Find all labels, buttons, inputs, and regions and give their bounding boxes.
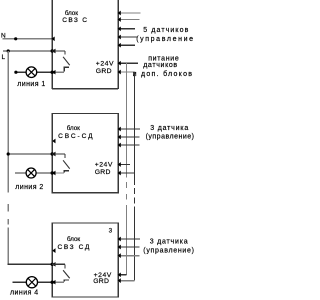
switch S1 in U1 (52, 51, 69, 72)
svg-text:3: 3 (109, 228, 113, 235)
terminal arrow U1 GRD (118, 70, 121, 75)
U3 sensor wire 2 (118, 246, 139, 248)
U2 +24V stub wire (118, 164, 130, 166)
svg-text:линия 2: линия 2 (15, 184, 44, 191)
U2 GRD stub wire (118, 172, 134, 174)
svg-text:и доп. блоков: и доп. блоков (133, 70, 194, 78)
terminal arrow N on U1 (51, 36, 54, 41)
junction dot L to left rail (7, 49, 10, 52)
junction dot lamp4 at U3 terminal (51, 281, 54, 284)
power drop wire A (+24V bus) solid upper (126, 63, 128, 177)
power drop wire B dash 2 (134, 198, 136, 204)
U1 +24V wire (118, 62, 138, 64)
U1 sensor wire 2 (118, 19, 139, 21)
terminal arrow U2 +24V (118, 162, 121, 167)
block U2 label (58, 125, 94, 140)
terminal arrows U3 right edge sensors (118, 237, 121, 258)
junction dot lamp line 1 start (14, 71, 17, 74)
wire lamp line 1 (16, 71, 52, 73)
power drop wire A solid lower (126, 205, 128, 275)
svg-text:(управление): (управление) (136, 36, 194, 43)
switch S3 in U3 (52, 264, 69, 282)
svg-text:СВС-СД: СВС-СД (58, 133, 94, 140)
terminal arrows U1 right edge sensors (118, 11, 121, 48)
lamp линия 2 (26, 168, 36, 178)
terminal arrow U2 GRD (118, 171, 121, 176)
junction dot L at U1 terminal (51, 49, 54, 52)
svg-text:GRD: GRD (95, 169, 111, 176)
wire N (3, 38, 52, 40)
U2 sensor wire 3 (118, 144, 139, 146)
junction dot lamp1 at U1 terminal (51, 71, 54, 74)
svg-text:линия 4: линия 4 (10, 290, 39, 297)
block U1 label (62, 10, 88, 24)
U1 sensor wire 5 (118, 44, 135, 46)
wire L (3, 50, 52, 52)
svg-text:(управление): (управление) (143, 248, 194, 255)
block U3 box (блок СВЗ СД) (52, 223, 118, 297)
terminal arrow lamp2 on U2 (52, 171, 55, 176)
svg-text:блок: блок (65, 10, 78, 17)
block U3 label (58, 236, 91, 251)
junction dot U2 feed terminal (51, 152, 54, 155)
wire U3 feed from left rail with corner (8, 263, 52, 266)
junction dot U3 feed terminal (51, 263, 54, 266)
terminal arrow lamp1 on U1 (52, 70, 55, 75)
lamp линия 4 (26, 277, 37, 288)
power drop wire B dash 1 (134, 188, 136, 194)
left rail wire dash 1 of omitted section (7, 204, 9, 212)
left rail wire (solid upper part) (7, 51, 9, 193)
wire U2 feed from left rail (8, 153, 52, 155)
terminal arrow U3 upper (unconnected) (52, 248, 55, 253)
terminal arrow U3 feed (52, 262, 55, 267)
left rail wire (solid lower part) (7, 228, 9, 265)
switch S2 in U2 (52, 154, 69, 173)
left rail wire dash 2 of omitted section (7, 219, 9, 225)
power drop wire B dash 3 (134, 207, 136, 213)
svg-text:+24V: +24V (96, 61, 114, 68)
svg-text:СВЗ С: СВЗ С (62, 17, 88, 24)
terminal arrow U2 feed (52, 152, 55, 157)
terminal arrow U2 upper (unconnected) (52, 139, 55, 144)
svg-text:датчиков: датчиков (143, 62, 178, 69)
svg-text:GRD: GRD (96, 68, 112, 75)
block U1 box (блок СВЗ С, top cut off) (52, 0, 118, 89)
svg-text:5 датчиков: 5 датчиков (143, 27, 189, 34)
svg-text:блок: блок (67, 236, 80, 243)
svg-text:(управление): (управление) (146, 134, 194, 141)
svg-text:+24V: +24V (95, 161, 113, 168)
U3 +24V stub wire with corner to drop A (118, 274, 126, 276)
wire lamp line 4 (13, 281, 53, 283)
terminal arrow U3 +24V (118, 272, 121, 277)
power drop wire A dash 2 (126, 194, 128, 200)
terminal arrow U1 +24V (118, 61, 121, 66)
svg-text:блок: блок (67, 125, 80, 132)
svg-text:линия 1: линия 1 (17, 81, 46, 88)
block U2 box (блок СВС-СД) (52, 114, 118, 193)
terminal arrow lamp4 on U3 (52, 280, 55, 285)
terminal arrow U3 GRD (118, 278, 121, 283)
U2 sensor wire 2 (118, 136, 139, 138)
junction dot on N wire (14, 37, 17, 40)
terminal arrow L on U1 (52, 49, 55, 54)
terminal arrows U2 right edge sensors (118, 127, 121, 148)
svg-text:3 датчика: 3 датчика (150, 125, 189, 132)
U3 GRD stub wire with corner to drop B (118, 280, 134, 282)
U1 sensor wire 4 (118, 36, 137, 38)
U1 sensor wire 1 (118, 12, 140, 14)
power drop wire A dash 1 (126, 182, 128, 188)
U3 sensor wire 1 (118, 238, 140, 240)
U2 sensor wire 1 (118, 128, 140, 130)
junction dot rail/U2 feed (7, 152, 10, 155)
svg-text:GRD: GRD (93, 278, 109, 285)
wire lamp line 2 (15, 172, 52, 174)
lamp линия 1 (26, 67, 37, 78)
junction dot lamp2 at U2 terminal (51, 171, 54, 174)
power drop wire B solid lower (134, 212, 136, 280)
U1 GRD wire (118, 71, 135, 73)
U3 sensor wire 3 (118, 255, 139, 257)
svg-text:3 датчика: 3 датчика (150, 239, 189, 246)
U1 sensor wire 3 (118, 28, 135, 30)
power drop wire B (GRD bus) solid upper (134, 72, 136, 185)
svg-text:L: L (2, 54, 6, 61)
svg-text:СВЗ СД: СВЗ СД (58, 244, 91, 251)
